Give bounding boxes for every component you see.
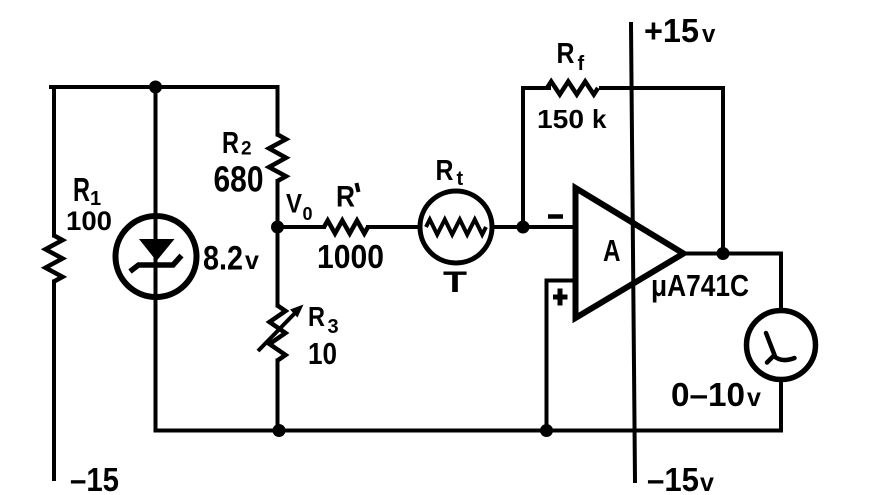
svg-text:V: V xyxy=(286,189,302,219)
svg-text:3: 3 xyxy=(328,316,339,338)
svg-text:t: t xyxy=(457,168,464,190)
svg-text:R: R xyxy=(73,171,90,208)
svg-text:v: v xyxy=(702,21,716,48)
svg-text:8.2: 8.2 xyxy=(203,240,243,278)
svg-text:k: k xyxy=(592,104,607,134)
svg-text:v: v xyxy=(245,247,259,275)
svg-text:1000: 1000 xyxy=(317,238,384,275)
svg-text:A: A xyxy=(603,233,621,268)
svg-text:2: 2 xyxy=(241,139,252,160)
svg-text:150: 150 xyxy=(537,104,584,134)
svg-text:R: R xyxy=(308,301,325,332)
svg-text:R: R xyxy=(436,155,454,187)
svg-text:v: v xyxy=(747,384,761,412)
svg-text:10: 10 xyxy=(308,336,337,371)
svg-text:–15: –15 xyxy=(647,461,699,495)
svg-text:μA741C: μA741C xyxy=(651,268,749,303)
svg-text:T: T xyxy=(443,266,467,299)
svg-text:680: 680 xyxy=(214,159,264,200)
svg-text:–15: –15 xyxy=(70,461,119,495)
svg-text:0–10: 0–10 xyxy=(671,376,745,413)
svg-text:v: v xyxy=(700,469,714,495)
svg-text:0: 0 xyxy=(303,204,313,224)
svg-text:R: R xyxy=(557,38,575,70)
svg-text:+15: +15 xyxy=(644,12,699,49)
svg-text:R: R xyxy=(336,181,355,214)
svg-text:100: 100 xyxy=(66,206,112,236)
svg-text:R: R xyxy=(222,125,239,160)
svg-text:f: f xyxy=(578,53,585,75)
